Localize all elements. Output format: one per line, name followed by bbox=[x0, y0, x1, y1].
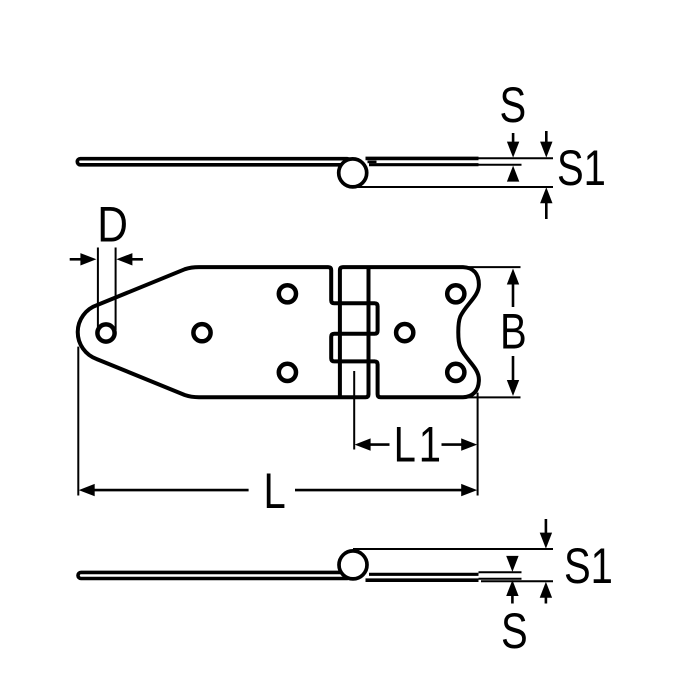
main view: hinge outline with knuckle meander bbox=[78, 267, 479, 397]
svg-text:L: L bbox=[394, 416, 416, 472]
dimension B: bottom arrow bbox=[512, 356, 515, 382]
bottom view: left leaf slab bbox=[78, 572, 350, 578]
dimension L: right extension line bbox=[477, 393, 479, 496]
bottom view: right leaf bottom line bbox=[366, 578, 479, 582]
top view: S1 lower arrow bbox=[540, 187, 552, 203]
main view: hole right top bbox=[447, 285, 464, 302]
dimension D: left arrow bbox=[70, 258, 83, 261]
top view: left leaf slab bbox=[77, 159, 350, 165]
dimension L: left arrow bbox=[79, 484, 95, 496]
dimension D: extension lines bbox=[97, 248, 99, 331]
top view: right leaf top line bbox=[366, 157, 479, 161]
main view: hole left tip bbox=[97, 324, 114, 341]
top view: extension line top surface bbox=[479, 157, 554, 159]
main view: hole right center bbox=[396, 324, 413, 341]
dimension L1: extension line from barrel bbox=[353, 371, 355, 450]
dimension L1: left arrow bbox=[355, 438, 371, 450]
svg-text:S1: S1 bbox=[564, 538, 613, 594]
dimension B: extension lines bbox=[466, 266, 521, 268]
dimension L: left extension line bbox=[77, 347, 79, 496]
top view: right leaf curl dash bbox=[368, 161, 377, 164]
top view: extension line bottom surface bbox=[479, 164, 522, 166]
bottom view: extension line bottom surface bbox=[479, 578, 522, 580]
bottom view: extension line top surface bbox=[479, 571, 522, 573]
top view: S1 upper arrow bbox=[545, 131, 548, 144]
top view: S upper arrow bbox=[512, 133, 515, 145]
bottom view: S down arrow bbox=[506, 556, 518, 572]
top view: extension line knuckle bottom bbox=[353, 186, 553, 188]
main view: hole left pair top bbox=[279, 285, 296, 302]
main view: hole left pair bottom bbox=[279, 364, 296, 381]
main view: hole left center bbox=[193, 324, 210, 341]
dimension L: right arrow bbox=[295, 489, 462, 492]
svg-text:S1: S1 bbox=[557, 140, 606, 196]
svg-text:B: B bbox=[500, 303, 527, 359]
dimension D: right arrow bbox=[116, 253, 132, 265]
svg-text:S: S bbox=[500, 77, 527, 133]
svg-text:1: 1 bbox=[419, 416, 441, 472]
main view: hole right bottom bbox=[447, 364, 464, 381]
bottom view: S1 lower arrow bbox=[540, 582, 552, 598]
svg-text:S: S bbox=[501, 603, 528, 659]
bottom view: right leaf top line bbox=[369, 573, 479, 576]
bottom view: S lower arrow bbox=[506, 580, 518, 596]
top view: right leaf bottom line bbox=[369, 163, 479, 166]
bottom view: knuckle circle bbox=[339, 551, 367, 579]
bottom view: S1 upper arrow bbox=[545, 519, 548, 535]
top view: knuckle circle bbox=[339, 159, 367, 187]
dimension B: top arrow bbox=[507, 269, 519, 285]
svg-text:D: D bbox=[97, 196, 128, 252]
dimension L1: right arrow bbox=[442, 443, 463, 446]
svg-text:L: L bbox=[264, 463, 286, 519]
bottom view: extension line knuckle top bbox=[353, 548, 553, 550]
top view: S lower arrow bbox=[507, 166, 519, 182]
